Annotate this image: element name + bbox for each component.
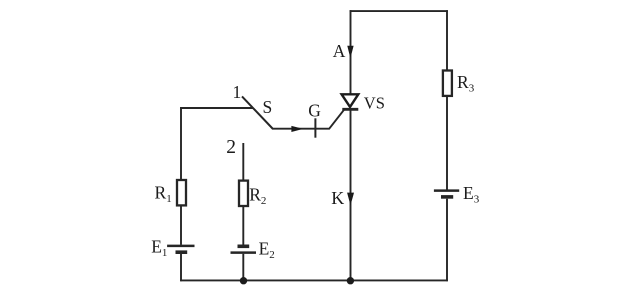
wire contact 2 (down to R2) [242,143,244,181]
svg-text:R2: R2 [249,184,266,207]
wire bottom rail [180,279,448,281]
gate terminal tick [314,118,316,137]
svg-text:E1: E1 [151,237,167,260]
wire E2 to bottom [242,254,244,281]
resistor R2 [239,181,266,207]
wire right lower (E3 to bottom) [446,199,448,282]
svg-text:E3: E3 [463,183,480,206]
svg-text:S: S [263,97,273,117]
svg-text:2: 2 [226,137,236,158]
svg-text:K: K [331,188,344,208]
svg-text:E2: E2 [259,238,275,261]
svg-text:A: A [333,41,346,61]
wire left vertical lower (E1 to bottom) [180,254,182,281]
resistor R3 [443,71,475,96]
wire right middle (R3 to E3) [446,96,448,190]
svg-text:G: G [308,101,321,121]
wire R2 to E2 [242,206,244,245]
arrow A (anode current direction) [333,41,353,61]
resistor R1 [155,180,187,205]
battery E1 [151,237,194,260]
wire cathode (thyristor to bottom) [350,110,352,282]
wire left vertical upper (to R1) [180,107,182,180]
wire anode (top to thyristor) [350,10,352,94]
svg-text:VS: VS [364,94,385,113]
junction dot E2 branch / bottom rail [240,277,247,284]
wire left vertical middle (R1 to E1) [180,205,182,244]
svg-text:R3: R3 [457,72,475,95]
gate wire from switch to thyristor gate [272,110,344,129]
wire top (anode branch to R3 branch) [350,10,448,12]
svg-text:1: 1 [233,82,242,102]
arrow K (cathode current direction) [331,188,353,208]
switch S arm from contact 1 [242,96,273,128]
wire right upper (top to R3) [446,10,448,71]
junction dot thyristor branch / bottom rail [347,277,354,284]
gate wire arrowhead [292,127,301,132]
battery E3 [434,183,480,206]
wire left horizontal (to switch contact 1) [180,107,252,109]
svg-text:R1: R1 [155,183,172,206]
battery E2 (reversed polarity) [231,238,275,261]
thyristor VS [342,94,385,113]
